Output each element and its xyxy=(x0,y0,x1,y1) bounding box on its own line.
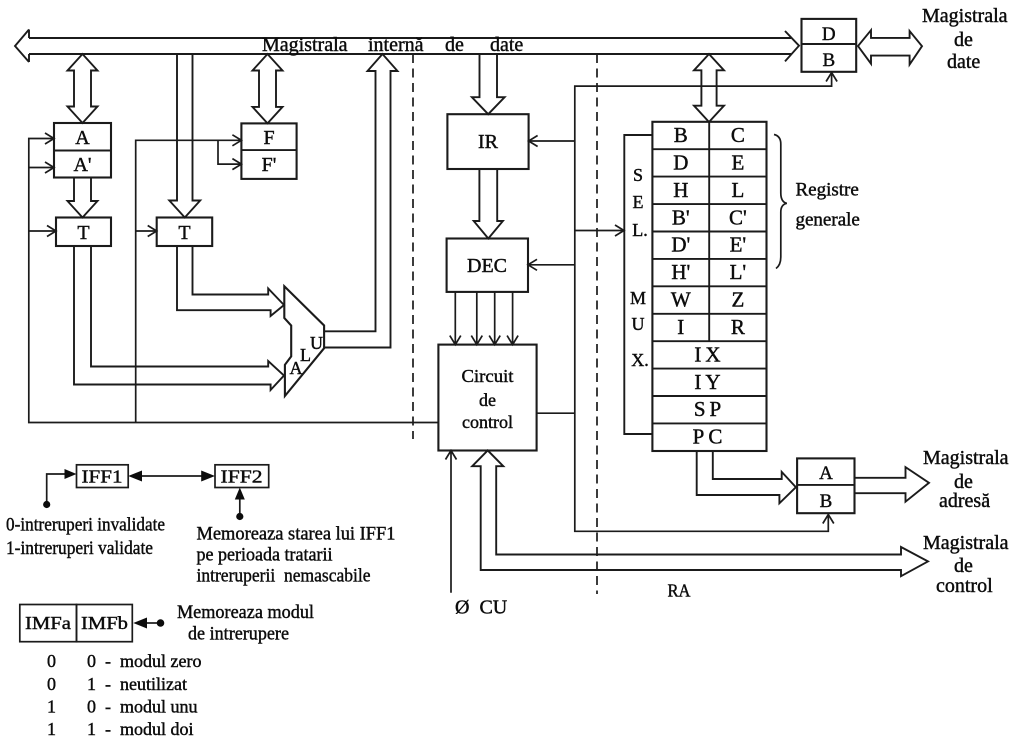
svg-text:L.: L. xyxy=(632,220,648,240)
register A / A' box xyxy=(54,123,111,178)
IFF1 box xyxy=(77,465,129,488)
svg-text:control: control xyxy=(936,575,993,597)
svg-text:DEC: DEC xyxy=(467,255,507,277)
dashed separator line right xyxy=(596,54,598,594)
svg-text:E: E xyxy=(731,150,744,174)
svg-text:control: control xyxy=(462,412,513,432)
svg-text:1 - modul doi: 1 - modul doi xyxy=(87,719,194,739)
control circuit box (Circuit de control) xyxy=(438,345,536,451)
svg-text:L': L' xyxy=(730,260,747,284)
arrow head into F xyxy=(232,135,241,146)
svg-text:Registre: Registre xyxy=(796,180,859,201)
ALU body xyxy=(284,286,324,396)
register T1 box xyxy=(56,218,111,247)
DEC to control circuit arrow 3 xyxy=(489,292,500,345)
SEL MUX letters xyxy=(630,165,649,370)
svg-text:E': E' xyxy=(730,233,747,257)
register T2 box xyxy=(157,218,213,247)
svg-text:F': F' xyxy=(262,154,277,176)
svg-text:date: date xyxy=(947,51,980,73)
svg-text:C': C' xyxy=(729,205,747,229)
arrow head into SEL xyxy=(615,225,624,236)
svg-text:1 - neutilizat: 1 - neutilizat xyxy=(87,674,187,694)
svg-text:B: B xyxy=(822,50,835,71)
svg-text:SP: SP xyxy=(694,397,725,421)
svg-text:generale: generale xyxy=(796,210,860,231)
svg-text:Ø CU: Ø CU xyxy=(455,597,508,619)
hollow bent arrow ALU up to bus xyxy=(324,54,397,348)
svg-text:Circuit: Circuit xyxy=(462,366,514,386)
wire branch to F' xyxy=(218,140,241,164)
svg-text:0 - modul zero: 0 - modul zero xyxy=(87,651,201,671)
IR box xyxy=(447,114,528,169)
hollow arrow bus down to IR xyxy=(472,54,505,114)
SEL MUX bracket xyxy=(624,135,652,434)
svg-text:Memoreaza starea lui IFF1: Memoreaza starea lui IFF1 xyxy=(197,524,396,545)
svg-text:de intrerupere: de intrerupere xyxy=(188,624,289,645)
arrow head into A' xyxy=(45,162,54,173)
svg-text:1-intreruperi validate: 1-intreruperi validate xyxy=(6,538,153,559)
register file outer box xyxy=(652,122,766,451)
hollow bent arrow T1 down to ALU lower input xyxy=(74,246,284,390)
dashed separator line left xyxy=(412,54,414,439)
svg-text:IFF2: IFF2 xyxy=(221,467,263,487)
svg-text:internă: internă xyxy=(368,34,424,56)
svg-text:Magistrala: Magistrala xyxy=(923,447,1009,469)
svg-text:Z: Z xyxy=(731,288,744,312)
arrow head into T1 xyxy=(47,226,56,237)
left control rail wire xyxy=(29,139,439,423)
svg-text:IFF1: IFF1 xyxy=(82,467,123,487)
svg-text:IX: IX xyxy=(694,342,724,366)
IMFa box xyxy=(20,605,77,642)
IMFb box xyxy=(77,605,133,642)
svg-text:Memoreaza modul: Memoreaza modul xyxy=(177,602,314,623)
PC to address buffer hollow bent arrow xyxy=(697,452,796,503)
svg-text:T: T xyxy=(77,222,89,244)
svg-text:B: B xyxy=(820,491,833,512)
register F / F' box xyxy=(241,123,296,178)
svg-text:IMFa: IMFa xyxy=(25,613,71,633)
svg-text:1: 1 xyxy=(47,697,56,717)
svg-text:RA: RA xyxy=(668,581,691,601)
svg-text:IMFb: IMFb xyxy=(81,613,128,633)
svg-text:Magistrala: Magistrala xyxy=(923,532,1009,554)
hollow double arrow bus to register file xyxy=(694,54,724,122)
svg-text:H: H xyxy=(673,178,688,202)
hollow arrow IR down to DEC xyxy=(474,169,503,239)
svg-text:M: M xyxy=(630,288,646,308)
double arrow IFF1-IFF2 xyxy=(141,475,206,477)
arrow head into A xyxy=(45,133,54,144)
wire branch to T2 xyxy=(136,230,157,232)
right control rail wire xyxy=(575,73,832,531)
arrow head into T2 xyxy=(148,226,157,237)
wire rail to DEC xyxy=(528,264,575,266)
arrow with dot into IMFb xyxy=(146,622,160,624)
svg-text:X.: X. xyxy=(631,350,649,370)
svg-text:U: U xyxy=(310,333,323,353)
hollow double horizontal arrow to external data bus xyxy=(858,30,922,64)
arrow head into DEC xyxy=(528,259,537,270)
hollow arrow bus down to T2 xyxy=(169,54,200,218)
svg-text:L: L xyxy=(731,178,744,202)
arrow head into IR xyxy=(529,136,538,147)
svg-text:A': A' xyxy=(73,154,91,176)
wire rail to IR xyxy=(529,140,575,142)
hollow bent control bus arrow (Magistrala de control) xyxy=(472,450,928,576)
svg-text:de: de xyxy=(954,29,973,51)
svg-text:PC: PC xyxy=(693,425,727,449)
data bus buffer D/B box xyxy=(802,19,857,72)
wire circuit to rail xyxy=(537,412,575,414)
clock input arrow (O CU) xyxy=(446,451,457,593)
hollow double arrow bus to A register xyxy=(68,54,98,123)
svg-text:0 - modul unu: 0 - modul unu xyxy=(87,697,198,717)
wire branch to T1 xyxy=(29,230,56,232)
DEC to control circuit arrow 2 xyxy=(471,292,482,345)
svg-text:de: de xyxy=(479,390,496,410)
svg-text:de: de xyxy=(445,34,464,56)
svg-text:D: D xyxy=(673,150,688,174)
svg-text:A: A xyxy=(819,463,833,484)
address buffer A/B box xyxy=(797,458,854,513)
svg-text:IY: IY xyxy=(694,370,724,394)
register labels full width xyxy=(693,342,727,448)
svg-text:T: T xyxy=(178,222,190,244)
svg-text:I: I xyxy=(677,315,684,339)
svg-text:date: date xyxy=(490,34,523,56)
svg-text:D: D xyxy=(822,24,836,45)
internal data bus band (Magistrala interna de date) xyxy=(15,30,799,63)
DEC to control circuit arrow 4 xyxy=(507,292,518,345)
svg-text:S: S xyxy=(633,165,643,185)
svg-text:de: de xyxy=(954,555,973,577)
hollow arrow A' down to T1 xyxy=(68,178,98,218)
middle rail wire to F/F' xyxy=(136,140,242,422)
svg-text:0: 0 xyxy=(47,674,56,694)
svg-text:R: R xyxy=(731,315,745,339)
svg-text:B': B' xyxy=(672,205,690,229)
register file row lines xyxy=(652,149,766,423)
svg-text:W: W xyxy=(671,288,691,312)
svg-text:Magistrala: Magistrala xyxy=(262,34,348,56)
svg-text:adresă: adresă xyxy=(939,490,990,512)
hollow arrow to external address bus xyxy=(855,467,930,502)
svg-text:F: F xyxy=(263,127,274,149)
svg-text:Magistrala: Magistrala xyxy=(922,5,1008,27)
arrow head into address buffer B xyxy=(823,515,834,524)
svg-text:intreruperii nemascabile: intreruperii nemascabile xyxy=(197,566,371,587)
svg-text:1: 1 xyxy=(47,719,56,739)
arrow head into F' xyxy=(232,159,241,170)
svg-text:IR: IR xyxy=(478,131,499,153)
DEC box xyxy=(447,239,528,292)
wire with dot into IFF1 xyxy=(47,474,68,504)
brace for general registers xyxy=(774,135,787,269)
svg-text:D': D' xyxy=(671,233,690,257)
svg-text:pe perioada tratarii: pe perioada tratarii xyxy=(197,545,333,566)
wire with dot into IFF2 bottom xyxy=(239,494,241,517)
DEC to control circuit arrow 1 xyxy=(450,292,461,345)
svg-text:0: 0 xyxy=(47,651,56,671)
svg-text:E: E xyxy=(633,192,644,212)
register labels two-column xyxy=(671,123,747,339)
hollow double arrow bus to F register xyxy=(253,54,283,123)
svg-text:C: C xyxy=(731,123,745,147)
svg-text:0-intreruperi invalidate: 0-intreruperi invalidate xyxy=(6,515,165,536)
register file column divider xyxy=(708,122,710,341)
svg-text:U: U xyxy=(632,314,645,334)
hollow bent arrow T2 down to ALU upper input xyxy=(177,246,284,316)
wire branch to A' xyxy=(29,167,54,169)
arrow head into data buffer B xyxy=(826,73,837,82)
svg-text:H': H' xyxy=(671,260,690,284)
IFF2 box xyxy=(215,465,269,488)
svg-text:A: A xyxy=(75,127,90,149)
svg-text:B: B xyxy=(674,123,688,147)
wire rail to SEL xyxy=(575,230,624,232)
